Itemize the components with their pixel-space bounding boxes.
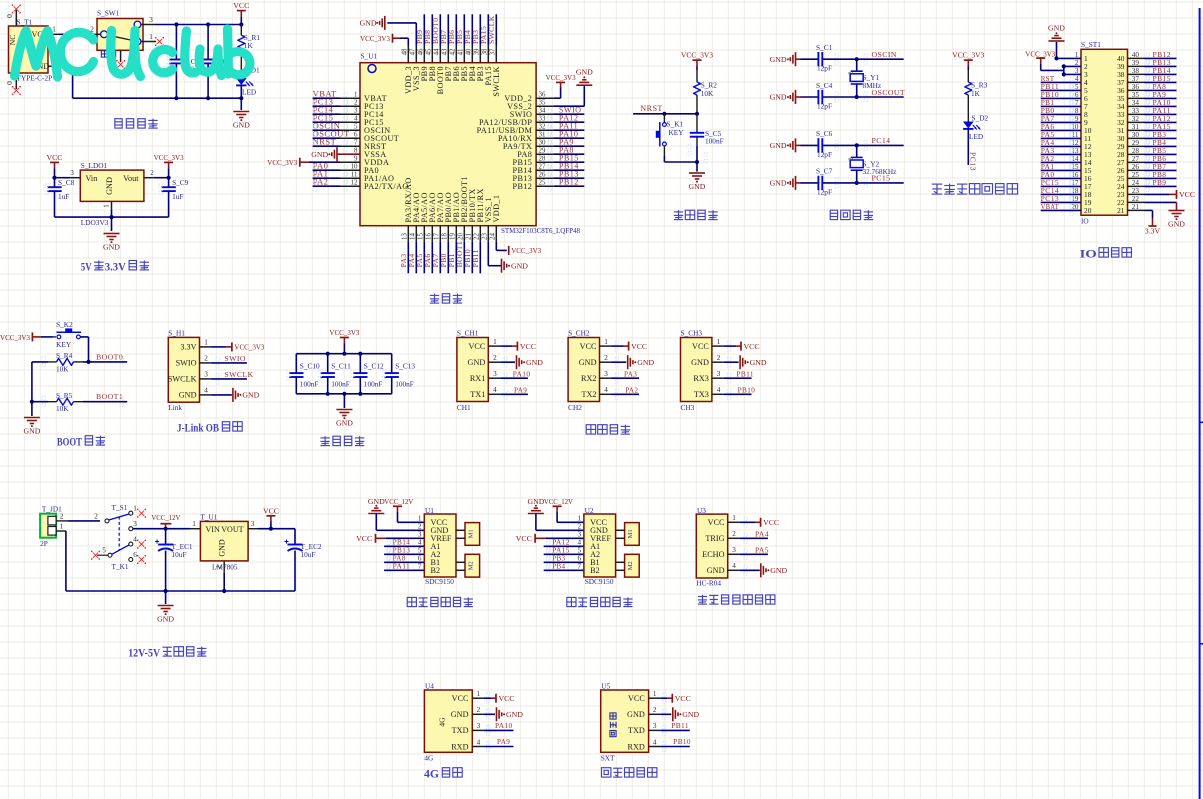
svg-text:4: 4 [604, 386, 608, 394]
svg-text:40: 40 [465, 48, 472, 55]
svg-text:OSCIN: OSCIN [872, 50, 897, 59]
svg-text:GND: GND [157, 615, 174, 624]
svg-text:1: 1 [578, 514, 582, 522]
svg-text:42: 42 [449, 48, 456, 55]
svg-text:VCC: VCC [356, 534, 372, 543]
svg-text:4: 4 [578, 538, 582, 546]
svg-text:3: 3 [354, 107, 358, 114]
svg-text:VCC_3V3: VCC_3V3 [546, 73, 576, 82]
svg-text:Vout: Vout [123, 174, 139, 183]
svg-text:GND: GND [770, 566, 787, 575]
svg-text:3: 3 [578, 530, 582, 538]
svg-text:3: 3 [717, 370, 721, 378]
svg-text:37: 37 [489, 48, 496, 55]
svg-text:RX1: RX1 [470, 374, 485, 383]
svg-text:5: 5 [354, 123, 358, 130]
svg-text:12pF: 12pF [817, 150, 832, 159]
svg-text:PC14: PC14 [872, 136, 891, 145]
svg-text:3: 3 [204, 371, 208, 379]
svg-text:2P: 2P [40, 539, 48, 548]
svg-text:13: 13 [401, 233, 408, 240]
svg-text:GND: GND [770, 93, 787, 102]
svg-text:M1: M1 [467, 529, 474, 538]
svg-text:GND: GND [691, 358, 709, 367]
svg-text:11: 11 [351, 171, 358, 178]
svg-text:38: 38 [481, 48, 488, 55]
svg-text:PA2/TX/AO: PA2/TX/AO [364, 182, 409, 191]
svg-text:KEY: KEY [669, 128, 685, 137]
svg-text:5: 5 [418, 546, 422, 554]
svg-text:S_R5: S_R5 [56, 391, 73, 400]
svg-text:2: 2 [653, 706, 657, 714]
svg-text:20: 20 [457, 233, 464, 240]
svg-text:GND: GND [1168, 220, 1185, 229]
svg-text:PA4: PA4 [755, 529, 769, 538]
svg-text:VCC: VCC [516, 534, 532, 543]
svg-text:41: 41 [457, 48, 464, 55]
svg-text:10K: 10K [56, 404, 69, 413]
svg-text:1: 1 [149, 33, 153, 41]
svg-text:VCC: VCC [233, 1, 249, 10]
svg-text:24: 24 [489, 233, 496, 240]
svg-text:SWCLK: SWCLK [224, 370, 253, 379]
svg-text:1: 1 [204, 339, 208, 347]
svg-text:VCC: VCC [468, 342, 485, 351]
svg-text:GND: GND [511, 262, 528, 271]
svg-text:GND: GND [506, 710, 523, 719]
svg-text:2: 2 [732, 530, 736, 538]
svg-text:GND: GND [770, 141, 787, 150]
svg-text:16: 16 [425, 233, 432, 240]
svg-text:SWCLK: SWCLK [487, 15, 496, 44]
svg-text:GND: GND [770, 55, 787, 64]
svg-text:48: 48 [401, 48, 408, 55]
svg-text:12pF: 12pF [817, 187, 832, 196]
svg-text:3: 3 [732, 546, 736, 554]
svg-text:2: 2 [1075, 59, 1079, 67]
svg-text:SWIO: SWIO [176, 359, 197, 368]
svg-text:44: 44 [433, 48, 440, 55]
svg-text:IO: IO [1080, 249, 1097, 261]
svg-text:4G: 4G [424, 753, 434, 762]
svg-text:12pF: 12pF [817, 64, 832, 73]
svg-text:S_C6: S_C6 [816, 129, 833, 138]
svg-text:8: 8 [354, 147, 358, 154]
svg-text:1: 1 [354, 91, 358, 98]
svg-text:12V-5V: 12V-5V [128, 648, 161, 660]
svg-text:VCC_12V: VCC_12V [151, 513, 180, 522]
svg-text:19: 19 [449, 233, 456, 240]
svg-text:T_U1: T_U1 [200, 513, 217, 522]
svg-text:S_H1: S_H1 [168, 329, 185, 338]
svg-text:TXD: TXD [628, 726, 645, 735]
svg-text:VCC_3V3: VCC_3V3 [329, 328, 359, 337]
svg-text:7: 7 [354, 139, 358, 146]
svg-text:3: 3 [477, 722, 481, 730]
svg-text:6: 6 [418, 554, 422, 562]
svg-text:PA9: PA9 [514, 386, 527, 395]
svg-text:2: 2 [204, 355, 208, 363]
svg-text:CH2: CH2 [568, 403, 582, 412]
svg-text:U4: U4 [425, 682, 434, 691]
svg-text:S_C10: S_C10 [300, 361, 320, 370]
svg-text:VCC: VCC [692, 342, 709, 351]
svg-text:VCC: VCC [631, 342, 647, 351]
svg-text:VCC_3V3: VCC_3V3 [0, 333, 30, 342]
svg-text:4G: 4G [424, 769, 439, 781]
svg-text:1: 1 [604, 338, 608, 346]
svg-text:BOOT: BOOT [57, 437, 82, 449]
svg-text:21: 21 [1117, 206, 1125, 215]
svg-text:S_C1: S_C1 [816, 43, 833, 52]
svg-text:ECHO: ECHO [702, 550, 724, 559]
svg-text:3: 3 [1075, 67, 1079, 75]
svg-text:GND: GND [311, 150, 328, 159]
svg-text:BOOT0: BOOT0 [96, 352, 123, 361]
svg-text:VCC: VCC [708, 518, 725, 527]
svg-text:3: 3 [70, 169, 74, 177]
svg-text:4: 4 [477, 738, 481, 746]
svg-text:45: 45 [425, 48, 432, 55]
svg-text:1uF: 1uF [58, 192, 69, 201]
svg-text:15: 15 [417, 233, 424, 240]
svg-text:6: 6 [578, 554, 582, 562]
svg-text:29: 29 [539, 147, 546, 154]
svg-text:GND: GND [468, 358, 486, 367]
svg-text:VCC: VCC [263, 506, 279, 515]
svg-text:S_K2: S_K2 [56, 320, 73, 329]
svg-text:VCC: VCC [628, 694, 645, 703]
svg-text:1: 1 [653, 690, 657, 698]
svg-text:RX2: RX2 [581, 374, 596, 383]
svg-text:3.3V: 3.3V [1145, 227, 1161, 236]
svg-text:VDD_1: VDD_1 [492, 195, 501, 223]
svg-text:VOUT: VOUT [221, 525, 243, 534]
svg-text:TX3: TX3 [694, 390, 709, 399]
svg-text:PB12: PB12 [559, 177, 579, 186]
svg-text:8MHz: 8MHz [863, 81, 882, 90]
svg-text:10uF: 10uF [172, 550, 187, 559]
svg-text:3: 3 [251, 520, 255, 528]
svg-text:7: 7 [418, 562, 422, 570]
svg-text:GND: GND [336, 419, 353, 428]
svg-text:10K: 10K [701, 89, 714, 98]
svg-text:CH3: CH3 [681, 403, 695, 412]
svg-text:VCC: VCC [744, 342, 760, 351]
svg-text:VCC: VCC [580, 342, 597, 351]
svg-text:GND: GND [682, 710, 699, 719]
svg-text:5V: 5V [81, 261, 93, 273]
svg-text:GND: GND [576, 68, 593, 77]
svg-text:27: 27 [539, 163, 546, 170]
svg-text:20: 20 [1084, 206, 1092, 215]
svg-text:J-Link OB: J-Link OB [177, 423, 219, 435]
svg-text:0: 0 [5, 14, 14, 18]
svg-text:22: 22 [473, 233, 480, 240]
svg-text:33: 33 [539, 115, 546, 122]
svg-text:1: 1 [717, 338, 721, 346]
svg-text:S_D2: S_D2 [972, 114, 989, 123]
svg-text:10K: 10K [56, 364, 69, 373]
svg-text:2: 2 [848, 71, 855, 74]
svg-text:PB11: PB11 [671, 721, 689, 730]
svg-text:S_C9: S_C9 [172, 178, 189, 187]
svg-text:PB10: PB10 [673, 737, 691, 746]
svg-text:M2: M2 [627, 561, 634, 570]
svg-text:SDC9150: SDC9150 [585, 577, 614, 586]
svg-text:VCC_3V3: VCC_3V3 [154, 153, 184, 162]
svg-text:S_T1: S_T1 [17, 18, 33, 27]
svg-text:PB11: PB11 [471, 249, 480, 267]
svg-text:3: 3 [418, 530, 422, 538]
svg-text:4: 4 [204, 387, 208, 395]
svg-text:VCC_3V3: VCC_3V3 [511, 246, 541, 255]
svg-text:PA2: PA2 [313, 176, 329, 186]
svg-text:3.3V: 3.3V [105, 261, 127, 273]
svg-text:PA3: PA3 [624, 369, 637, 378]
svg-text:2: 2 [94, 512, 98, 520]
svg-text:GND: GND [689, 182, 706, 191]
svg-text:4: 4 [493, 386, 497, 394]
svg-text:TX1: TX1 [470, 390, 485, 399]
svg-text:6: 6 [354, 131, 358, 138]
svg-text:10: 10 [351, 163, 358, 170]
svg-text:HC-R04: HC-R04 [696, 579, 721, 588]
svg-text:2: 2 [578, 522, 582, 530]
svg-text:PA11: PA11 [393, 562, 411, 571]
svg-text:32: 32 [539, 123, 546, 130]
svg-text:S_C12: S_C12 [364, 361, 384, 370]
svg-text:GND: GND [233, 121, 250, 130]
svg-text:GND: GND [368, 497, 385, 506]
svg-text:SDC9150: SDC9150 [425, 577, 454, 586]
svg-text:2: 2 [60, 512, 64, 520]
svg-text:VCC: VCC [675, 694, 691, 703]
svg-text:GND: GND [451, 710, 469, 719]
svg-text:S_C11: S_C11 [331, 361, 351, 370]
svg-text:VCC: VCC [452, 694, 469, 703]
svg-text:3: 3 [133, 520, 137, 528]
svg-text:VBAT: VBAT [1041, 202, 1059, 211]
svg-text:M2: M2 [467, 561, 474, 570]
svg-text:GND: GND [360, 18, 377, 27]
svg-text:T_S1: T_S1 [112, 503, 128, 512]
svg-text:S_CH2: S_CH2 [568, 329, 590, 338]
svg-text:GND: GND [526, 358, 543, 367]
svg-text:GND: GND [179, 391, 197, 400]
svg-text:PB11: PB11 [736, 369, 754, 378]
svg-text:PA9: PA9 [497, 737, 510, 746]
svg-text:2: 2 [848, 157, 855, 160]
svg-text:GND: GND [105, 177, 114, 195]
svg-text:21: 21 [465, 233, 472, 240]
svg-text:VCC_12V: VCC_12V [384, 497, 413, 506]
svg-text:12pF: 12pF [817, 102, 832, 111]
svg-text:RXD: RXD [451, 742, 468, 751]
svg-text:26: 26 [539, 171, 546, 178]
svg-text:9: 9 [354, 155, 358, 162]
svg-text:4: 4 [354, 115, 358, 122]
svg-text:PB12: PB12 [512, 182, 532, 191]
svg-text:PB10: PB10 [738, 386, 756, 395]
svg-text:1uF: 1uF [172, 192, 183, 201]
svg-text:12: 12 [351, 179, 358, 186]
svg-text:1: 1 [133, 505, 137, 513]
svg-text:GND: GND [750, 358, 767, 367]
svg-text:100nF: 100nF [705, 136, 724, 145]
svg-text:GND: GND [637, 358, 654, 367]
svg-text:LED: LED [969, 132, 983, 141]
svg-text:5: 5 [578, 546, 582, 554]
svg-text:100nF: 100nF [300, 379, 319, 388]
svg-text:S_LDO1: S_LDO1 [81, 161, 108, 170]
svg-text:3: 3 [149, 16, 153, 24]
svg-text:47: 47 [409, 48, 416, 55]
svg-text:VCC: VCC [499, 694, 515, 703]
svg-text:VCC_3V3: VCC_3V3 [952, 51, 984, 60]
svg-text:GND: GND [242, 391, 259, 400]
svg-text:Vin: Vin [86, 174, 98, 183]
svg-text:S_C4: S_C4 [816, 81, 833, 90]
svg-text:IO: IO [1081, 217, 1089, 226]
svg-text:S_C8: S_C8 [58, 178, 75, 187]
svg-text:30: 30 [539, 139, 546, 146]
svg-text:GND: GND [23, 427, 40, 436]
svg-text:100nF: 100nF [331, 379, 350, 388]
svg-text:2: 2 [477, 706, 481, 714]
svg-text:SWCLK: SWCLK [492, 66, 501, 97]
svg-text:M1: M1 [627, 529, 634, 538]
svg-text:NC: NC [8, 35, 17, 46]
svg-text:43: 43 [441, 48, 448, 55]
svg-text:S_CH1: S_CH1 [457, 329, 479, 338]
svg-text:CH1: CH1 [457, 403, 471, 412]
svg-text:SWIO: SWIO [224, 354, 246, 363]
svg-text:S_SW1: S_SW1 [97, 9, 120, 18]
svg-text:1: 1 [418, 514, 422, 522]
svg-text:B2: B2 [431, 566, 441, 575]
svg-text:34: 34 [539, 107, 546, 114]
svg-text:GND: GND [103, 243, 120, 252]
svg-text:NRST: NRST [640, 104, 663, 113]
svg-text:32.768KHz: 32.768KHz [863, 167, 898, 176]
svg-text:4: 4 [133, 536, 137, 544]
svg-text:TX2: TX2 [581, 390, 596, 399]
svg-text:14: 14 [409, 233, 416, 240]
svg-text:6: 6 [133, 551, 137, 559]
svg-text:2: 2 [604, 354, 608, 362]
svg-text:2: 2 [150, 169, 154, 177]
svg-text:VCC_3V3: VCC_3V3 [1025, 49, 1055, 58]
svg-text:PA10: PA10 [513, 369, 531, 378]
svg-text:18: 18 [441, 233, 448, 240]
svg-text:31: 31 [539, 131, 546, 138]
svg-text:7: 7 [578, 562, 582, 570]
svg-text:S_ST1: S_ST1 [1081, 40, 1101, 49]
svg-text:RXD: RXD [628, 742, 645, 751]
svg-text:GND: GND [707, 566, 725, 575]
svg-text:4G: 4G [438, 717, 447, 727]
svg-text:PB4: PB4 [552, 562, 565, 571]
svg-text:17: 17 [433, 233, 440, 240]
svg-text:SXT: SXT [601, 753, 615, 762]
svg-text:PB9: PB9 [1153, 178, 1167, 187]
svg-text:4: 4 [653, 738, 657, 746]
svg-text:VCC_3V3: VCC_3V3 [234, 343, 264, 352]
svg-text:36: 36 [539, 91, 546, 98]
svg-text:2: 2 [418, 522, 422, 530]
svg-text:KEY: KEY [56, 340, 72, 349]
svg-text:2: 2 [493, 354, 497, 362]
svg-text:3: 3 [604, 370, 608, 378]
svg-text:Link: Link [168, 403, 182, 412]
svg-text:LED: LED [242, 88, 256, 97]
svg-text:U5: U5 [601, 682, 610, 691]
svg-text:35: 35 [539, 99, 546, 106]
svg-text:25: 25 [539, 179, 546, 186]
svg-text:4: 4 [732, 562, 736, 570]
svg-text:SWCLK: SWCLK [168, 375, 197, 384]
svg-text:3.3V: 3.3V [180, 343, 196, 352]
svg-text:1: 1 [60, 523, 64, 531]
svg-text:VCC: VCC [520, 342, 536, 351]
svg-text:S_CH3: S_CH3 [681, 329, 703, 338]
svg-text:1: 1 [192, 520, 196, 528]
svg-text:VCC: VCC [46, 153, 62, 162]
svg-text:1: 1 [1075, 51, 1079, 59]
svg-text:5: 5 [102, 547, 106, 555]
svg-text:10uF: 10uF [301, 550, 316, 559]
svg-text:PA2: PA2 [625, 386, 638, 395]
svg-text:1: 1 [477, 690, 481, 698]
svg-text:2: 2 [354, 99, 358, 106]
svg-text:VCC_12V: VCC_12V [544, 497, 573, 506]
svg-text:S_C13: S_C13 [395, 361, 415, 370]
svg-text:B2: B2 [590, 566, 600, 575]
svg-text:GND: GND [218, 539, 227, 557]
svg-text:GND: GND [1048, 24, 1065, 33]
svg-text:PC13: PC13 [969, 152, 978, 171]
svg-text:VIN: VIN [206, 525, 220, 534]
svg-text:GND: GND [579, 358, 597, 367]
svg-text:GND: GND [770, 179, 787, 188]
svg-text:S_C7: S_C7 [816, 167, 833, 176]
svg-text:VCC_3V3: VCC_3V3 [360, 34, 390, 43]
svg-text:GND: GND [627, 710, 645, 719]
svg-text:TYPE-C-2P: TYPE-C-2P [17, 74, 53, 83]
svg-text:T_K1: T_K1 [112, 562, 129, 571]
svg-text:23: 23 [481, 233, 488, 240]
svg-text:VCC_3V3: VCC_3V3 [267, 158, 297, 167]
svg-text:VCC_3V3: VCC_3V3 [681, 51, 713, 60]
svg-text:PA5: PA5 [755, 545, 769, 554]
svg-text:1: 1 [493, 338, 497, 346]
svg-text:GND: GND [527, 497, 544, 506]
svg-text:3: 3 [493, 370, 497, 378]
svg-text:BOOT1: BOOT1 [96, 392, 123, 401]
svg-text:39: 39 [473, 48, 480, 55]
svg-text:28: 28 [539, 155, 546, 162]
svg-text:VCC: VCC [1179, 190, 1195, 199]
svg-text:0: 0 [5, 81, 14, 85]
svg-text:1: 1 [103, 204, 111, 208]
svg-text:PA10: PA10 [495, 721, 513, 730]
svg-text:RX3: RX3 [693, 374, 708, 383]
svg-text:46: 46 [417, 48, 424, 55]
svg-text:1K: 1K [971, 89, 981, 98]
svg-text:TXD: TXD [452, 726, 469, 735]
svg-text:2: 2 [215, 565, 223, 569]
